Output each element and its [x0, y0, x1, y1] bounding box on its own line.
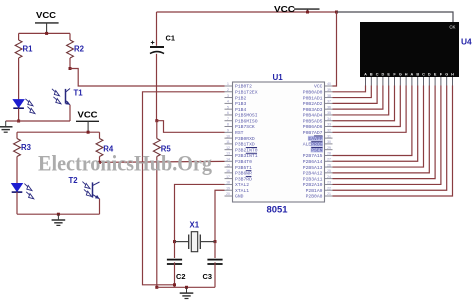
capacitor C3: [207, 259, 222, 261]
svg-text:24: 24: [327, 175, 331, 179]
wire crystal ground rail: [157, 286, 215, 288]
svg-text:34: 34: [327, 117, 331, 121]
bus wires 8051 P0.0-P0.7 to display A-H (digit 1): [333, 86, 366, 92]
svg-text:2: 2: [227, 88, 229, 92]
svg-text:A: A: [411, 73, 414, 77]
svg-text:21: 21: [327, 192, 331, 196]
svg-text:RST: RST: [235, 130, 244, 136]
junction node T1 collector: [69, 67, 72, 70]
junction tier-2 ground: [57, 213, 60, 216]
svg-text:H: H: [405, 73, 408, 77]
wire tier-1 VCC rail: [19, 32, 70, 34]
power VCC (tier-1 supply): [35, 22, 59, 24]
capacitor C2: [167, 259, 182, 261]
crystal X1: [188, 235, 190, 250]
svg-text:10: 10: [226, 134, 230, 138]
svg-text:U1: U1: [273, 73, 284, 82]
svg-text:ALEPROG: ALEPROG: [303, 142, 323, 148]
svg-text:P3B7RD: P3B7RD: [235, 176, 252, 182]
capacitor C1 (polarised): [150, 46, 164, 48]
wire C1 bottom lead: [156, 54, 158, 121]
transistor T2 (photo): [92, 182, 94, 197]
svg-text:P1B1T2EX: P1B1T2EX: [235, 89, 258, 95]
svg-text:U4: U4: [461, 37, 472, 47]
wire R3 to LED2: [16, 157, 18, 184]
power VCC (top rail): [294, 8, 320, 10]
LED D2 emission arrows: [27, 185, 32, 190]
svg-text:P3B5T1: P3B5T1: [235, 165, 252, 171]
ground (tier-1): [5, 121, 7, 126]
wire R1 top lead: [18, 33, 20, 40]
svg-text:P0B7AD7: P0B7AD7: [303, 130, 323, 136]
svg-text:P0B1AD1: P0B1AD1: [303, 95, 323, 101]
svg-text:P0B6AD6: P0B6AD6: [303, 124, 323, 130]
svg-text:E: E: [387, 73, 390, 77]
svg-text:35: 35: [327, 111, 331, 115]
svg-text:CK: CK: [449, 25, 455, 30]
wire T2 emitter lead: [99, 199, 101, 214]
junction tier-1 VCC stem: [45, 32, 48, 35]
svg-text:P2B1A9: P2B1A9: [306, 188, 323, 194]
svg-text:12: 12: [226, 146, 230, 150]
svg-text:39: 39: [327, 88, 331, 92]
svg-text:23: 23: [327, 181, 331, 185]
bus wires 8051 P2.7-P2.0 to display A-H (digit 2): [333, 86, 412, 156]
svg-text:VCC: VCC: [274, 5, 295, 14]
svg-text:P0B0AD0: P0B0AD0: [303, 89, 323, 95]
resistor R3: [14, 139, 21, 157]
svg-text:27: 27: [327, 157, 331, 161]
svg-text:P1B6MISO: P1B6MISO: [235, 118, 258, 124]
T1 light arrows: [54, 91, 59, 96]
svg-text:G: G: [399, 73, 402, 77]
wire C2 bottom lead: [174, 262, 176, 287]
wire R5 bottom lead: [156, 157, 158, 288]
wire T1 emitter lead: [69, 105, 71, 121]
op-amp U1 body (8051 MCU): [233, 82, 325, 202]
svg-text:P2B3A11: P2B3A11: [303, 176, 323, 182]
svg-text:8: 8: [227, 123, 229, 127]
wire tier-2 ground rail: [17, 213, 100, 215]
wire top rail to display CK (dark): [337, 12, 454, 22]
junction tier-2 VCC stem: [87, 131, 90, 134]
svg-text:16: 16: [226, 169, 230, 173]
svg-text:7: 7: [227, 117, 229, 121]
wire VCC rail to 8051 pin40: [333, 12, 337, 86]
svg-text:B: B: [370, 73, 373, 77]
svg-text:4: 4: [227, 100, 229, 104]
resistor R5: [153, 139, 160, 157]
svg-text:P3B3INT1: P3B3INT1: [235, 153, 258, 159]
wire R4 to T2 collector: [99, 157, 101, 163]
svg-text:30: 30: [327, 140, 331, 144]
wire VCC top rail (red): [157, 11, 337, 13]
svg-text:33: 33: [327, 123, 331, 127]
wire crystal left lead: [175, 241, 189, 243]
svg-text:P0B2AD2: P0B2AD2: [303, 101, 323, 107]
svg-text:3: 3: [227, 94, 229, 98]
svg-text:H: H: [451, 73, 454, 77]
LED D2 (IR transmit): [12, 184, 23, 192]
svg-text:36: 36: [327, 105, 331, 109]
svg-text:29: 29: [327, 146, 331, 150]
svg-text:19: 19: [226, 186, 230, 190]
svg-text:D: D: [428, 73, 431, 77]
transistor T1 (photo): [65, 89, 67, 104]
junction RST node: [155, 119, 158, 122]
svg-text:38: 38: [327, 94, 331, 98]
svg-text:P2B2A10: P2B2A10: [303, 182, 323, 188]
wire node A to 8051 P1.0/T2: [70, 69, 225, 87]
svg-text:P3B2INT0: P3B2INT0: [235, 147, 258, 153]
svg-text:P2B0A8: P2B0A8: [306, 194, 323, 200]
svg-text:P1B5MOSI: P1B5MOSI: [235, 113, 258, 119]
svg-text:28: 28: [327, 152, 331, 156]
wire R4 top lead: [99, 132, 101, 138]
wire crystal right lead: [201, 241, 215, 243]
svg-text:C3: C3: [203, 272, 212, 281]
svg-text:32: 32: [327, 129, 331, 133]
svg-text:37: 37: [327, 100, 331, 104]
wire R2 top lead: [69, 33, 71, 40]
svg-text:P1B7SCK: P1B7SCK: [235, 124, 255, 130]
junction VCC / CK corner: [335, 11, 338, 14]
svg-text:R3: R3: [21, 143, 32, 152]
wire C3 top lead: [214, 242, 216, 258]
svg-text:P3B4T0: P3B4T0: [235, 159, 252, 165]
svg-text:VCC: VCC: [78, 110, 98, 119]
resistor R4: [96, 139, 103, 157]
wire C1 top lead: [156, 12, 158, 46]
svg-text:VCC: VCC: [314, 84, 323, 90]
svg-text:EAVPP: EAVPP: [308, 136, 322, 142]
svg-text:P3B6WR: P3B6WR: [235, 171, 252, 177]
resistor R1: [15, 40, 22, 58]
svg-text:P2B5A13: P2B5A13: [303, 165, 323, 171]
svg-text:14: 14: [226, 157, 230, 161]
svg-text:T1: T1: [74, 89, 84, 98]
U1 left pin stubs: [225, 85, 233, 87]
junction R5-ground rail: [155, 286, 158, 289]
ground (crystal circuit): [186, 287, 188, 292]
svg-text:20: 20: [226, 192, 230, 196]
svg-text:PSEN: PSEN: [311, 147, 322, 153]
svg-text:31: 31: [327, 134, 331, 138]
svg-text:D: D: [382, 73, 385, 77]
svg-text:8051: 8051: [267, 205, 288, 215]
svg-text:X1: X1: [190, 221, 200, 230]
svg-text:18: 18: [226, 181, 230, 185]
wire 8051 P1.1 to ground rail: [143, 92, 225, 285]
svg-text:5: 5: [227, 105, 229, 109]
LED D1 emission arrows: [28, 101, 33, 106]
svg-text:P3B0RXD: P3B0RXD: [235, 136, 255, 142]
junction node T2 collector: [98, 161, 101, 164]
svg-text:C1: C1: [166, 34, 175, 43]
svg-text:G: G: [445, 73, 448, 77]
svg-text:11: 11: [226, 140, 230, 144]
resistor R2: [67, 40, 74, 58]
LED D1 (IR transmit): [13, 100, 24, 108]
wire XTAL1 to crystal right: [215, 190, 225, 241]
svg-text:ElectronicsHub.Org: ElectronicsHub.Org: [38, 151, 212, 176]
wire tier-1 ground rail: [6, 120, 70, 122]
svg-text:XTAL1: XTAL1: [235, 188, 249, 194]
svg-text:VCC: VCC: [36, 11, 56, 20]
svg-text:R2: R2: [74, 45, 85, 54]
T2 light arrows: [85, 183, 90, 188]
svg-text:P0B3AD3: P0B3AD3: [303, 107, 323, 113]
svg-text:P2B6A14: P2B6A14: [303, 159, 323, 165]
svg-text:6: 6: [227, 111, 229, 115]
svg-text:40: 40: [327, 82, 331, 86]
U1 right pin stubs: [325, 85, 333, 87]
junction VCC symbol tap: [306, 11, 309, 14]
wire XTAL2 to crystal left: [175, 184, 225, 241]
svg-text:22: 22: [327, 186, 331, 190]
svg-text:1: 1: [227, 82, 229, 86]
wire RST node to 8051 RST pin: [157, 121, 225, 133]
svg-text:XTAL2: XTAL2: [235, 182, 249, 188]
wire node B to 8051 P3.4/T0: [100, 160, 225, 163]
wire R5 top lead: [156, 121, 158, 139]
svg-text:P2B4A12: P2B4A12: [303, 171, 323, 177]
svg-text:P2B7A15: P2B7A15: [303, 153, 323, 159]
svg-text:A: A: [364, 73, 367, 77]
wire R3 top lead: [16, 132, 18, 138]
junction crystal ground: [185, 286, 188, 289]
display pin stubs: [365, 77, 367, 86]
svg-text:15: 15: [226, 163, 230, 167]
wire tier-2 VCC rail: [17, 131, 100, 133]
ground (tier-2): [57, 214, 59, 219]
svg-text:C2: C2: [176, 272, 185, 281]
junction crystal right node: [214, 240, 217, 243]
svg-text:C: C: [376, 73, 379, 77]
wire C3 bottom lead: [214, 262, 216, 287]
svg-text:P0B4AD4: P0B4AD4: [303, 113, 323, 119]
junction P1.1 gnd tie: [173, 283, 176, 286]
junction crystal left node: [173, 240, 176, 243]
wire LED1 cathode lead: [18, 108, 20, 121]
svg-text:26: 26: [327, 163, 331, 167]
svg-text:GND: GND: [235, 194, 244, 200]
display U4 body: [360, 22, 459, 77]
svg-text:P0B5AD5: P0B5AD5: [303, 118, 323, 124]
svg-text:13: 13: [226, 152, 230, 156]
svg-text:T2: T2: [69, 176, 79, 185]
svg-text:P3B1TXD: P3B1TXD: [235, 142, 255, 148]
svg-text:P1B3: P1B3: [235, 101, 246, 107]
svg-text:17: 17: [226, 175, 230, 179]
wire R2 to T1 collector: [69, 58, 71, 69]
wire LED2 cathode lead: [16, 192, 18, 214]
wire C2 top lead: [174, 242, 176, 258]
svg-text:R1: R1: [23, 45, 34, 54]
svg-text:B: B: [416, 73, 419, 77]
svg-text:C: C: [422, 73, 425, 77]
svg-text:P1B0T2: P1B0T2: [235, 84, 252, 90]
power VCC (tier-2 supply): [76, 120, 99, 122]
svg-text:25: 25: [327, 169, 331, 173]
svg-text:P1B4: P1B4: [235, 107, 246, 113]
wire R1 to LED1: [18, 58, 20, 100]
svg-text:9: 9: [227, 129, 229, 133]
junction LED1-ground rail: [17, 120, 20, 123]
svg-text:P1B2: P1B2: [235, 95, 246, 101]
